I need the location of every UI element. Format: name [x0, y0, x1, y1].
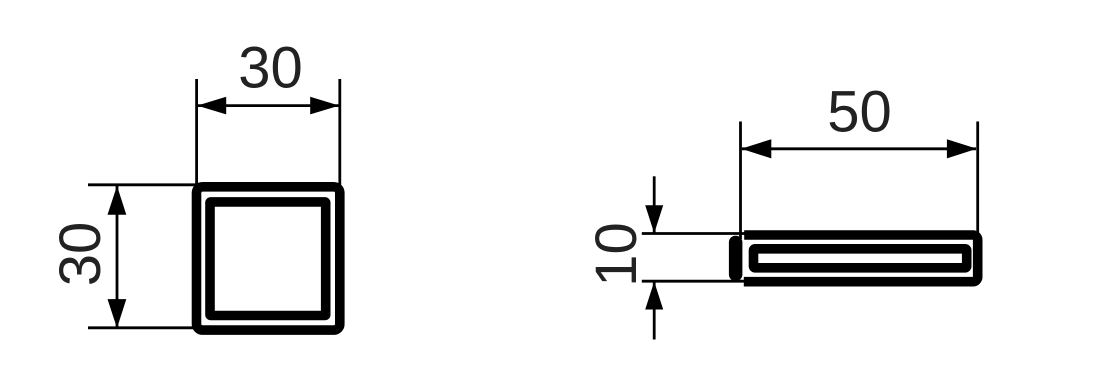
svg-text:10: 10: [584, 222, 649, 287]
arrowhead left (top dim): [197, 97, 226, 115]
dimension line 30 left: [116, 186, 119, 327]
extension line left (top dim): [195, 79, 198, 190]
square tube inner contour: [210, 202, 326, 316]
dimension line 30 top: [198, 104, 339, 107]
extension line top (left dim): [88, 183, 202, 186]
extension line right (top dim): [338, 79, 341, 190]
dimension line 50: [742, 147, 976, 150]
arrowhead right (top dim): [310, 97, 339, 115]
extension line right (50 dim): [976, 122, 979, 238]
arrowhead up (10 dim, below bar): [645, 282, 663, 310]
extension line left (50 dim): [739, 122, 742, 240]
flat tube inner contour: [754, 249, 967, 268]
arrowhead left (50 dim): [741, 139, 771, 158]
flat tube outer contour (top, right, bottom edges): [744, 235, 978, 282]
arrowhead up (left dim): [108, 186, 127, 215]
arrowhead right (50 dim): [947, 139, 977, 158]
arrowhead down (left dim): [108, 299, 127, 328]
flat tube left end cap: [729, 236, 743, 281]
svg-text:30: 30: [48, 222, 113, 287]
svg-text:50: 50: [827, 80, 892, 145]
dimension leader line below (10 dim): [653, 281, 656, 339]
square tube outer contour: [197, 187, 340, 330]
svg-text:30: 30: [238, 36, 303, 101]
arrowhead down (10 dim, above bar): [645, 205, 663, 233]
dimension leader line above (10 dim): [653, 176, 656, 233]
extension line bottom (left dim): [88, 326, 202, 329]
extension line bottom (10 dim): [642, 280, 747, 283]
extension line top (10 dim): [642, 232, 747, 235]
